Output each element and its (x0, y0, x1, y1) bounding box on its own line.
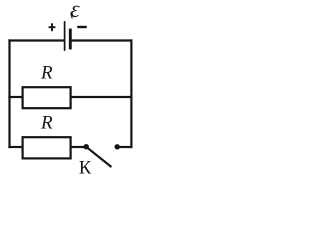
svg-text:К: К (79, 158, 92, 178)
switch K blade (open) (87, 148, 110, 167)
battery cell short plate (-) (69, 30, 72, 48)
wire left rail (8, 41, 10, 148)
label + (battery positive) (49, 23, 56, 31)
svg-text:R: R (40, 62, 53, 83)
battery cell long plate (+) (64, 22, 66, 50)
svg-text:R: R (40, 112, 53, 133)
wire top left segment (10, 39, 64, 41)
resistor R2 box (23, 137, 71, 158)
wire switch right contact to rail (119, 146, 132, 148)
wire bottom branch left (10, 146, 23, 148)
label EMF script E (70, 5, 80, 20)
wire middle branch right (71, 96, 132, 98)
wire middle branch left (10, 96, 23, 98)
label - (battery negative) (77, 26, 87, 28)
wire top right segment (71, 39, 132, 41)
resistor R1 box (23, 87, 71, 108)
switch contact node right (115, 144, 120, 149)
wire right rail (130, 41, 132, 148)
switch contact node left (84, 144, 89, 149)
wire bottom branch to switch (71, 146, 84, 148)
